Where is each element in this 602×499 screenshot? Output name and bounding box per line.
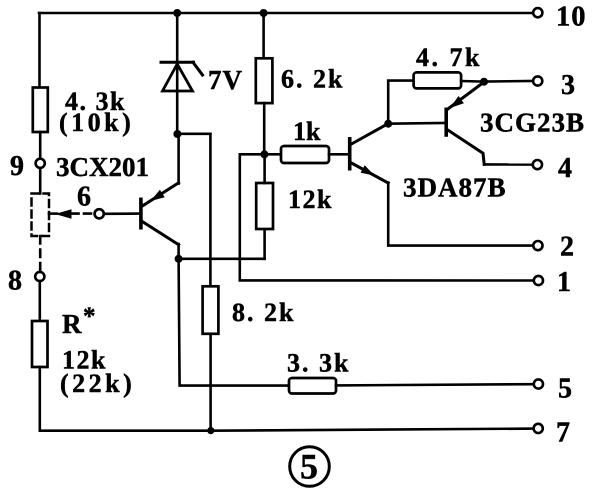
resistor R external (dashed body) xyxy=(32,194,50,237)
wire: terminal 9 to external resistor xyxy=(39,168,42,194)
junction dot collector node xyxy=(175,255,183,263)
terminal 3 xyxy=(533,76,542,85)
wire: 6.2k bottom lead xyxy=(263,103,266,154)
wiper arrow xyxy=(55,209,72,218)
resistor R* 12k body xyxy=(32,321,48,367)
resistor 4.7k body xyxy=(414,72,462,88)
svg-text:5: 5 xyxy=(558,374,572,405)
svg-text:8: 8 xyxy=(8,266,22,297)
svg-text:*: * xyxy=(83,303,96,330)
terminal 7 xyxy=(534,424,543,433)
junction dot 4.7k / terminal 3 / Q3 emitter xyxy=(480,78,488,86)
wire: to terminal 1 xyxy=(240,154,534,280)
dashed wire: external resistor to terminal 8 xyxy=(39,236,42,272)
wire: collector node down to 3.3k xyxy=(179,259,289,386)
terminal 1 xyxy=(534,276,543,285)
svg-text:R: R xyxy=(62,309,82,339)
wire: Q2 collector node to Q3 base xyxy=(388,122,445,125)
wire: 12k bottom lead xyxy=(263,229,266,259)
wire: R* down to bottom rail xyxy=(40,367,211,431)
wire: top supply rail xyxy=(39,12,534,15)
svg-text:10: 10 xyxy=(556,2,587,33)
wire: junction to 8.2k column xyxy=(177,133,210,136)
dashed wire: wiper to terminal 6 xyxy=(72,212,94,215)
svg-text:(10k): (10k) xyxy=(59,108,134,137)
wire: collector node to 12k bottom xyxy=(179,257,265,260)
transistor Q3 3CG23B xyxy=(446,82,484,164)
svg-text:1k: 1k xyxy=(293,117,321,146)
svg-text:3: 3 xyxy=(561,70,575,101)
wire: node to terminal 3 xyxy=(484,80,533,83)
wire: 3.3k to terminal 5 xyxy=(336,384,534,385)
svg-text:6: 6 xyxy=(77,182,91,213)
wire: top rail to 6.2k xyxy=(262,13,265,58)
svg-text:12k: 12k xyxy=(288,185,333,214)
junction dot top rail / zener xyxy=(173,9,181,17)
svg-text:4: 4 xyxy=(558,153,572,184)
terminal 10 xyxy=(533,8,542,17)
junction dot Q2 collector node xyxy=(384,120,392,128)
resistor 1k body xyxy=(281,146,329,163)
wire: terminal 8 to R* xyxy=(38,281,41,321)
svg-text:3CX201: 3CX201 xyxy=(56,152,149,182)
terminal 4 xyxy=(533,160,542,169)
transistor Q1 3CX201 xyxy=(141,134,179,259)
resistor 4.3k body xyxy=(33,88,48,133)
svg-text:(22k): (22k) xyxy=(60,369,135,398)
wire: terminal 6 to base of Q1 xyxy=(104,212,140,215)
terminal 2 xyxy=(533,241,542,250)
junction dot zener / emitter xyxy=(173,130,181,138)
terminal 6 xyxy=(95,209,104,218)
wire: Q3 collector to terminal 4 xyxy=(484,163,533,166)
resistor 8.2k body xyxy=(203,286,219,334)
zener diode 7V xyxy=(161,13,203,134)
svg-text:5: 5 xyxy=(300,447,318,487)
junction dot top rail / 6.2k xyxy=(260,9,268,17)
svg-text:8. 2k: 8. 2k xyxy=(232,298,295,327)
wire: divider node stub left xyxy=(240,153,265,156)
wire: 12k top lead xyxy=(263,154,266,183)
wire: 1k to base of Q2 xyxy=(329,153,348,156)
svg-text:6. 2k: 6. 2k xyxy=(281,65,344,94)
wire: 8.2k to bottom rail xyxy=(209,334,212,431)
resistor 3.3k body xyxy=(289,378,336,394)
junction dot divider node xyxy=(260,150,268,158)
svg-text:9: 9 xyxy=(10,151,24,182)
terminal 8 xyxy=(35,272,44,281)
wire: left rail upper xyxy=(38,13,41,88)
terminal 5 xyxy=(534,379,543,388)
svg-text:3CG23B: 3CG23B xyxy=(480,108,585,138)
wire: Q2 emitter to terminal 2 xyxy=(388,183,533,246)
wire: 8.2k column upper xyxy=(209,134,212,286)
transistor Q2 3DA87B xyxy=(350,124,389,183)
wire: wiper stub xyxy=(49,212,57,215)
terminal 9 xyxy=(36,159,45,168)
svg-text:3DA87B: 3DA87B xyxy=(403,173,507,203)
wire: collector node up to 4.7k xyxy=(388,81,413,124)
resistor 12k body xyxy=(256,183,273,229)
figure number circled 5 xyxy=(290,447,330,487)
wire: 4.3k to terminal 9 xyxy=(39,132,42,159)
wire: divider node to 1k xyxy=(264,153,281,156)
wire: bottom rail to terminal 7 xyxy=(211,429,534,431)
svg-text:3. 3k: 3. 3k xyxy=(287,349,350,378)
svg-text:7V: 7V xyxy=(208,65,243,95)
svg-text:2: 2 xyxy=(560,232,574,263)
svg-text:1: 1 xyxy=(557,267,571,298)
svg-text:4. 7k: 4. 7k xyxy=(416,43,482,72)
junction dot bottom rail / 8.2k xyxy=(207,427,214,434)
resistor 6.2k body xyxy=(256,58,273,103)
wire: 4.7k to node xyxy=(461,80,484,83)
svg-text:7: 7 xyxy=(556,418,570,449)
